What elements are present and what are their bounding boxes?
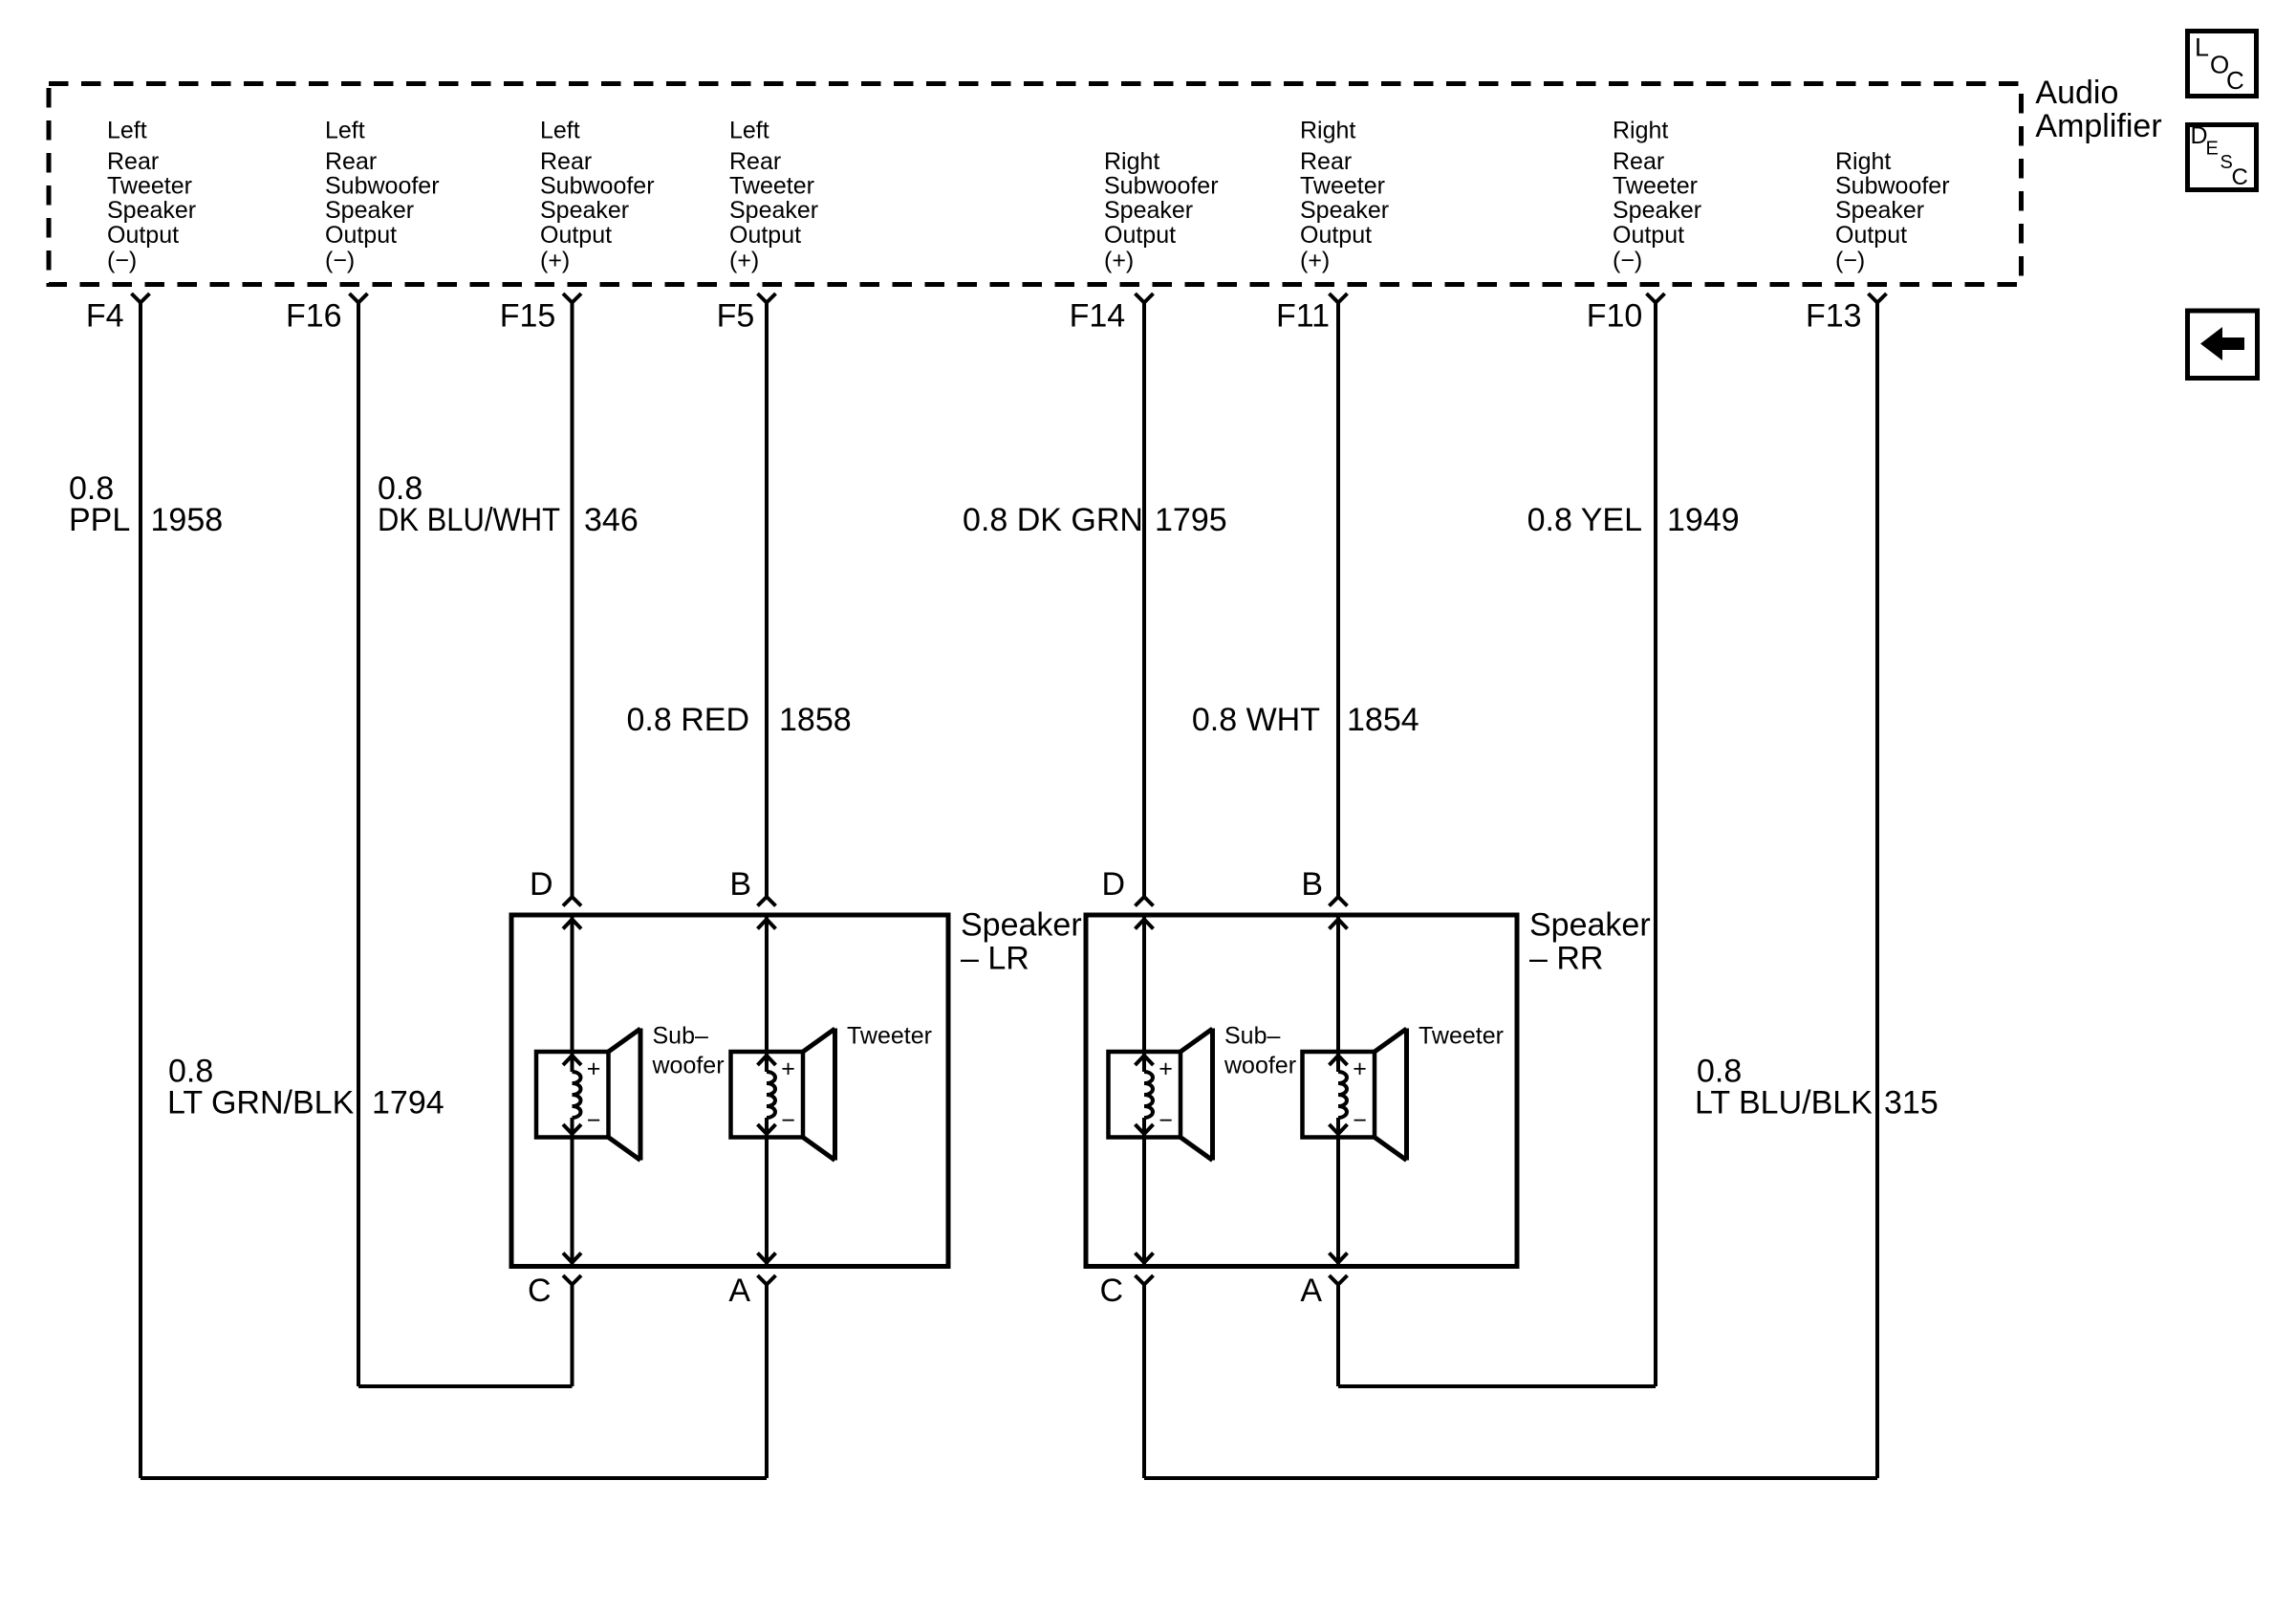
svg-text:B: B	[1301, 866, 1323, 903]
svg-text:Amplifier: Amplifier	[2035, 108, 2161, 144]
svg-text:(−): (−)	[1835, 248, 1865, 274]
wire A (LR) down to F4 loop	[765, 1285, 769, 1479]
svg-text:Subwoofer: Subwoofer	[1104, 173, 1219, 200]
terminal fork at amp pin F11	[1330, 294, 1339, 303]
svg-text:1795: 1795	[1155, 502, 1227, 538]
svg-text:Left: Left	[325, 118, 365, 144]
svg-text:+: +	[781, 1056, 795, 1082]
svg-text:Rear: Rear	[1300, 148, 1352, 175]
svg-text:B: B	[729, 866, 751, 903]
svg-text:Output: Output	[729, 222, 801, 249]
svg-text:1858: 1858	[779, 702, 852, 738]
svg-text:Speaker: Speaker	[961, 906, 1082, 943]
svg-text:Rear: Rear	[325, 148, 377, 175]
svg-text:Speaker: Speaker	[1300, 197, 1389, 224]
terminal fork at amp pin F5	[758, 294, 768, 303]
wire loop F4 to A(LR) horizontal	[141, 1476, 767, 1480]
svg-text:F14: F14	[1070, 298, 1126, 335]
svg-text:Speaker: Speaker	[1529, 906, 1651, 943]
svg-text:woofer: woofer	[652, 1053, 725, 1079]
svg-text:Audio: Audio	[2035, 75, 2118, 111]
svg-text:Subwoofer: Subwoofer	[325, 173, 440, 200]
svg-text:C: C	[1099, 1273, 1123, 1309]
svg-text:0.8 DK GRN: 0.8 DK GRN	[963, 502, 1143, 538]
terminal fork at amp pin F14	[1136, 294, 1145, 303]
svg-text:(+): (+)	[1104, 248, 1134, 274]
svg-text:−: −	[1159, 1107, 1173, 1134]
wire from amp pin F16	[357, 303, 360, 1387]
arrowhead down (box bottom)	[563, 1253, 573, 1263]
svg-text:Sub–: Sub–	[653, 1023, 708, 1050]
arrowhead down (coil bottom)	[758, 1124, 768, 1134]
svg-text:Left: Left	[729, 118, 769, 144]
tweeter speaker symbol (RR)	[1303, 1052, 1375, 1138]
speaker horn	[1210, 1029, 1215, 1161]
arrowhead up (coil top)	[758, 1056, 768, 1065]
svg-text:Tweeter: Tweeter	[1300, 173, 1385, 200]
svg-text:0.8 RED: 0.8 RED	[627, 702, 750, 738]
svg-text:(+): (+)	[729, 248, 759, 274]
terminal fork at amp pin F13	[1869, 294, 1878, 303]
wire from amp pin F10	[1654, 303, 1657, 1387]
svg-text:Right: Right	[1104, 148, 1159, 175]
subwoofer speaker symbol (LR)	[536, 1052, 609, 1138]
svg-text:Left: Left	[540, 118, 580, 144]
arrowhead down (box bottom)	[1330, 1253, 1339, 1263]
svg-text:E: E	[2206, 139, 2219, 160]
arrowhead up (box top)	[563, 920, 573, 929]
svg-text:(−): (−)	[107, 248, 137, 274]
svg-text:Subwoofer: Subwoofer	[540, 173, 655, 200]
svg-text:C: C	[2226, 66, 2244, 95]
svg-text:Output: Output	[107, 222, 179, 249]
svg-text:Rear: Rear	[107, 148, 159, 175]
svg-text:L: L	[2195, 33, 2209, 62]
svg-text:0.8 YEL: 0.8 YEL	[1527, 502, 1642, 538]
wire loop F16 to C(LR) horizontal	[358, 1384, 573, 1388]
back-arrow legend box	[2188, 311, 2258, 379]
svg-text:A: A	[1300, 1273, 1322, 1309]
terminal fork pin D LR	[563, 897, 573, 906]
svg-text:PPL: PPL	[69, 502, 130, 538]
svg-text:Speaker: Speaker	[325, 197, 414, 224]
svg-text:1958: 1958	[151, 502, 224, 538]
audio amplifier U1 dashed box	[49, 84, 2022, 285]
svg-text:(+): (+)	[1300, 248, 1330, 274]
wire from amp pin F4	[139, 303, 142, 1479]
svg-text:346: 346	[584, 502, 639, 538]
svg-text:1794: 1794	[372, 1085, 444, 1121]
svg-text:Tweeter: Tweeter	[107, 173, 192, 200]
voice coil	[1144, 1072, 1153, 1118]
DESC legend box	[2188, 125, 2257, 190]
svg-text:−: −	[781, 1107, 795, 1134]
svg-text:Speaker: Speaker	[107, 197, 196, 224]
svg-text:Subwoofer: Subwoofer	[1835, 173, 1950, 200]
wire inside speaker RR at x=1197	[1142, 915, 1146, 1072]
wire C (LR) down to F16 loop	[571, 1285, 574, 1387]
terminal fork pin A RR	[1330, 1275, 1339, 1285]
wire from amp pin F13	[1875, 303, 1879, 1479]
svg-text:Left: Left	[107, 118, 147, 144]
svg-text:Output: Output	[540, 222, 612, 249]
svg-text:(+): (+)	[540, 248, 570, 274]
svg-text:−: −	[1353, 1107, 1367, 1134]
wire inside speaker RR at x=1400	[1336, 915, 1340, 1072]
speaker horn	[639, 1029, 643, 1161]
arrowhead up (box top)	[1136, 920, 1145, 929]
speaker box RR	[1086, 915, 1517, 1267]
svg-text:(−): (−)	[1613, 248, 1642, 274]
wire from amp pin F14	[1142, 303, 1146, 898]
wire loop C(RR) to F13 horizontal	[1144, 1476, 1877, 1480]
svg-text:A: A	[728, 1273, 750, 1309]
svg-text:Sub–: Sub–	[1224, 1023, 1280, 1050]
wire from amp pin F5	[765, 303, 769, 898]
svg-text:Speaker: Speaker	[540, 197, 629, 224]
svg-text:0.8 WHT: 0.8 WHT	[1192, 702, 1320, 738]
speaker horn	[1404, 1029, 1409, 1161]
svg-text:DK BLU/WHT: DK BLU/WHT	[378, 502, 560, 538]
svg-text:+: +	[1159, 1056, 1173, 1082]
svg-text:Speaker: Speaker	[1835, 197, 1924, 224]
svg-text:– LR: – LR	[961, 940, 1029, 976]
svg-text:315: 315	[1884, 1085, 1939, 1121]
wire C (RR) down to F13 loop	[1142, 1285, 1146, 1479]
svg-text:Tweeter: Tweeter	[1613, 173, 1698, 200]
arrowhead up (coil top)	[1136, 1056, 1145, 1065]
svg-text:Tweeter: Tweeter	[1419, 1023, 1504, 1050]
wire inside speaker LR at x=598.5	[571, 915, 574, 1072]
arrowhead down (box bottom)	[758, 1253, 768, 1263]
svg-text:Rear: Rear	[1613, 148, 1664, 175]
subwoofer speaker symbol (RR)	[1109, 1052, 1181, 1138]
terminal fork at amp pin F10	[1647, 294, 1657, 303]
wire inside speaker LR at x=802	[765, 915, 769, 1072]
svg-text:F15: F15	[500, 298, 556, 335]
arrowhead up (box top)	[1330, 920, 1339, 929]
svg-text:+: +	[587, 1056, 601, 1082]
svg-text:Output: Output	[1835, 222, 1907, 249]
svg-text:Speaker: Speaker	[729, 197, 818, 224]
arrowhead up (coil top)	[1330, 1056, 1339, 1065]
svg-text:LT GRN/BLK: LT GRN/BLK	[167, 1085, 355, 1121]
voice coil	[573, 1072, 581, 1118]
svg-text:Speaker: Speaker	[1613, 197, 1701, 224]
svg-text:F13: F13	[1806, 298, 1862, 335]
LOC legend box	[2188, 32, 2257, 97]
svg-text:F10: F10	[1587, 298, 1643, 335]
svg-text:Tweeter: Tweeter	[729, 173, 814, 200]
svg-text:Tweeter: Tweeter	[847, 1023, 932, 1050]
speaker horn	[833, 1029, 837, 1161]
svg-text:Rear: Rear	[729, 148, 781, 175]
tweeter speaker symbol (LR)	[731, 1052, 804, 1138]
svg-text:F5: F5	[717, 298, 755, 335]
speaker box LR	[511, 915, 948, 1267]
svg-text:Output: Output	[325, 222, 397, 249]
svg-text:F11: F11	[1276, 298, 1330, 335]
terminal fork pin B RR	[1330, 897, 1339, 906]
wire A (RR) down to F10 loop	[1336, 1285, 1340, 1387]
svg-text:1949: 1949	[1667, 502, 1740, 538]
wire loop A(RR) to F10 horizontal	[1338, 1384, 1656, 1388]
svg-text:D: D	[530, 866, 553, 903]
terminal fork pin A LR	[758, 1275, 768, 1285]
svg-text:C: C	[528, 1273, 552, 1309]
svg-text:F16: F16	[286, 298, 342, 335]
svg-text:C: C	[2232, 164, 2248, 190]
terminal fork at amp pin F4	[132, 294, 141, 303]
arrowhead down (coil bottom)	[1136, 1124, 1145, 1134]
svg-text:F4: F4	[86, 298, 124, 335]
svg-text:Rear: Rear	[540, 148, 592, 175]
svg-text:Right: Right	[1835, 148, 1891, 175]
svg-text:Output: Output	[1613, 222, 1684, 249]
svg-text:Output: Output	[1300, 222, 1372, 249]
svg-text:D: D	[1101, 866, 1125, 903]
svg-text:Right: Right	[1300, 118, 1355, 144]
svg-text:LT BLU/BLK: LT BLU/BLK	[1695, 1085, 1873, 1121]
wire from amp pin F11	[1336, 303, 1340, 898]
svg-text:Speaker: Speaker	[1104, 197, 1193, 224]
terminal fork pin D RR	[1136, 897, 1145, 906]
svg-text:1854: 1854	[1347, 702, 1419, 738]
voice coil	[767, 1072, 775, 1118]
arrowhead down (coil bottom)	[1330, 1124, 1339, 1134]
terminal fork at amp pin F15	[563, 294, 573, 303]
arrowhead down (box bottom)	[1136, 1253, 1145, 1263]
terminal fork pin C RR	[1136, 1275, 1145, 1285]
wire from amp pin F15	[571, 303, 574, 898]
terminal fork pin C LR	[563, 1275, 573, 1285]
svg-text:woofer: woofer	[1224, 1053, 1296, 1079]
voice coil	[1338, 1072, 1347, 1118]
svg-text:Right: Right	[1613, 118, 1668, 144]
svg-text:(−): (−)	[325, 248, 355, 274]
svg-text:+: +	[1353, 1056, 1367, 1082]
arrowhead down (coil bottom)	[563, 1124, 573, 1134]
terminal fork at amp pin F16	[350, 294, 359, 303]
svg-text:– RR: – RR	[1529, 940, 1603, 976]
terminal fork pin B LR	[758, 897, 768, 906]
arrowhead up (box top)	[758, 920, 768, 929]
svg-text:−: −	[587, 1107, 601, 1134]
back arrow	[2200, 327, 2244, 360]
svg-text:Output: Output	[1104, 222, 1176, 249]
arrowhead up (coil top)	[563, 1056, 573, 1065]
